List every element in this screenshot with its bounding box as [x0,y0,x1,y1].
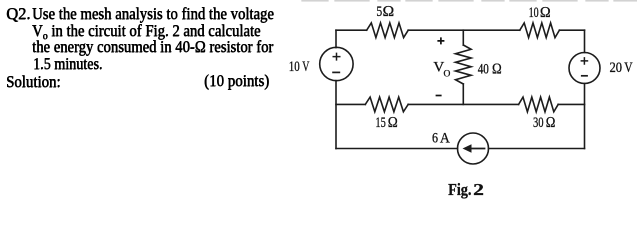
voltage source V1 10V circle [320,47,353,80]
Vo minus polarity mark [436,95,442,97]
Solution: label [6,74,60,90]
wire middle rail right segment [558,103,584,105]
svg-text:20: 20 [610,60,623,76]
wire left branch lower segment [335,81,337,149]
resistor R5 40ohm vertical zigzag [456,45,472,84]
resistor R3 15ohm zigzag [365,97,408,112]
svg-text:5: 5 [376,4,382,20]
V1 plus sign [333,53,341,61]
V2 minus sign [581,75,588,77]
svg-text:Fig.: Fig. [448,180,471,199]
svg-text:Ω: Ω [540,5,551,21]
svg-text:A: A [440,131,450,147]
svg-text:40: 40 [478,61,489,77]
V1 minus sign [332,71,340,73]
svg-text:Ω: Ω [546,115,556,131]
wire right branch lower segment [584,84,586,149]
wire middle branch lower stub [462,84,464,104]
question text block [6,6,30,22]
svg-text:30: 30 [533,115,544,131]
current source I1 arrow shaft [470,148,485,150]
wire top rail left segment [336,29,367,31]
resistor R4 30ohm zigzag [519,97,559,112]
voltage source V2 20V circle [569,53,600,84]
Vo plus polarity mark [437,37,444,44]
current source I1 6A circle [458,133,489,164]
wire bottom rail left segment [336,148,458,150]
svg-text:10: 10 [289,59,300,75]
wire top rail right segment [559,29,584,31]
wire right branch upper stub [584,30,586,52]
wire top rail middle segment [408,29,520,31]
svg-text:VO: VO [433,60,450,80]
svg-text:Ω: Ω [388,115,398,131]
svg-text:Ω: Ω [382,4,394,20]
wire left branch upper stub [335,30,337,47]
svg-text:10: 10 [529,5,539,21]
svg-text:Ω: Ω [492,61,502,77]
top-edge scan artifact [302,0,637,2]
svg-text:V: V [302,59,309,75]
wire middle branch upper stub [462,30,464,45]
svg-text:6: 6 [432,131,438,147]
wire bottom rail right segment [489,148,585,150]
current source I1 arrowhead [463,144,472,152]
svg-text:2: 2 [473,180,484,199]
(10 points) label [204,73,269,89]
resistor R2 10ohm zigzag [520,23,560,38]
V2 plus sign [581,57,589,65]
svg-text:V: V [624,60,633,76]
svg-text:15: 15 [375,115,385,131]
wire middle rail left segment [336,103,365,105]
resistor R1 5ohm zigzag [367,23,409,38]
wire middle rail center segment [408,103,518,105]
